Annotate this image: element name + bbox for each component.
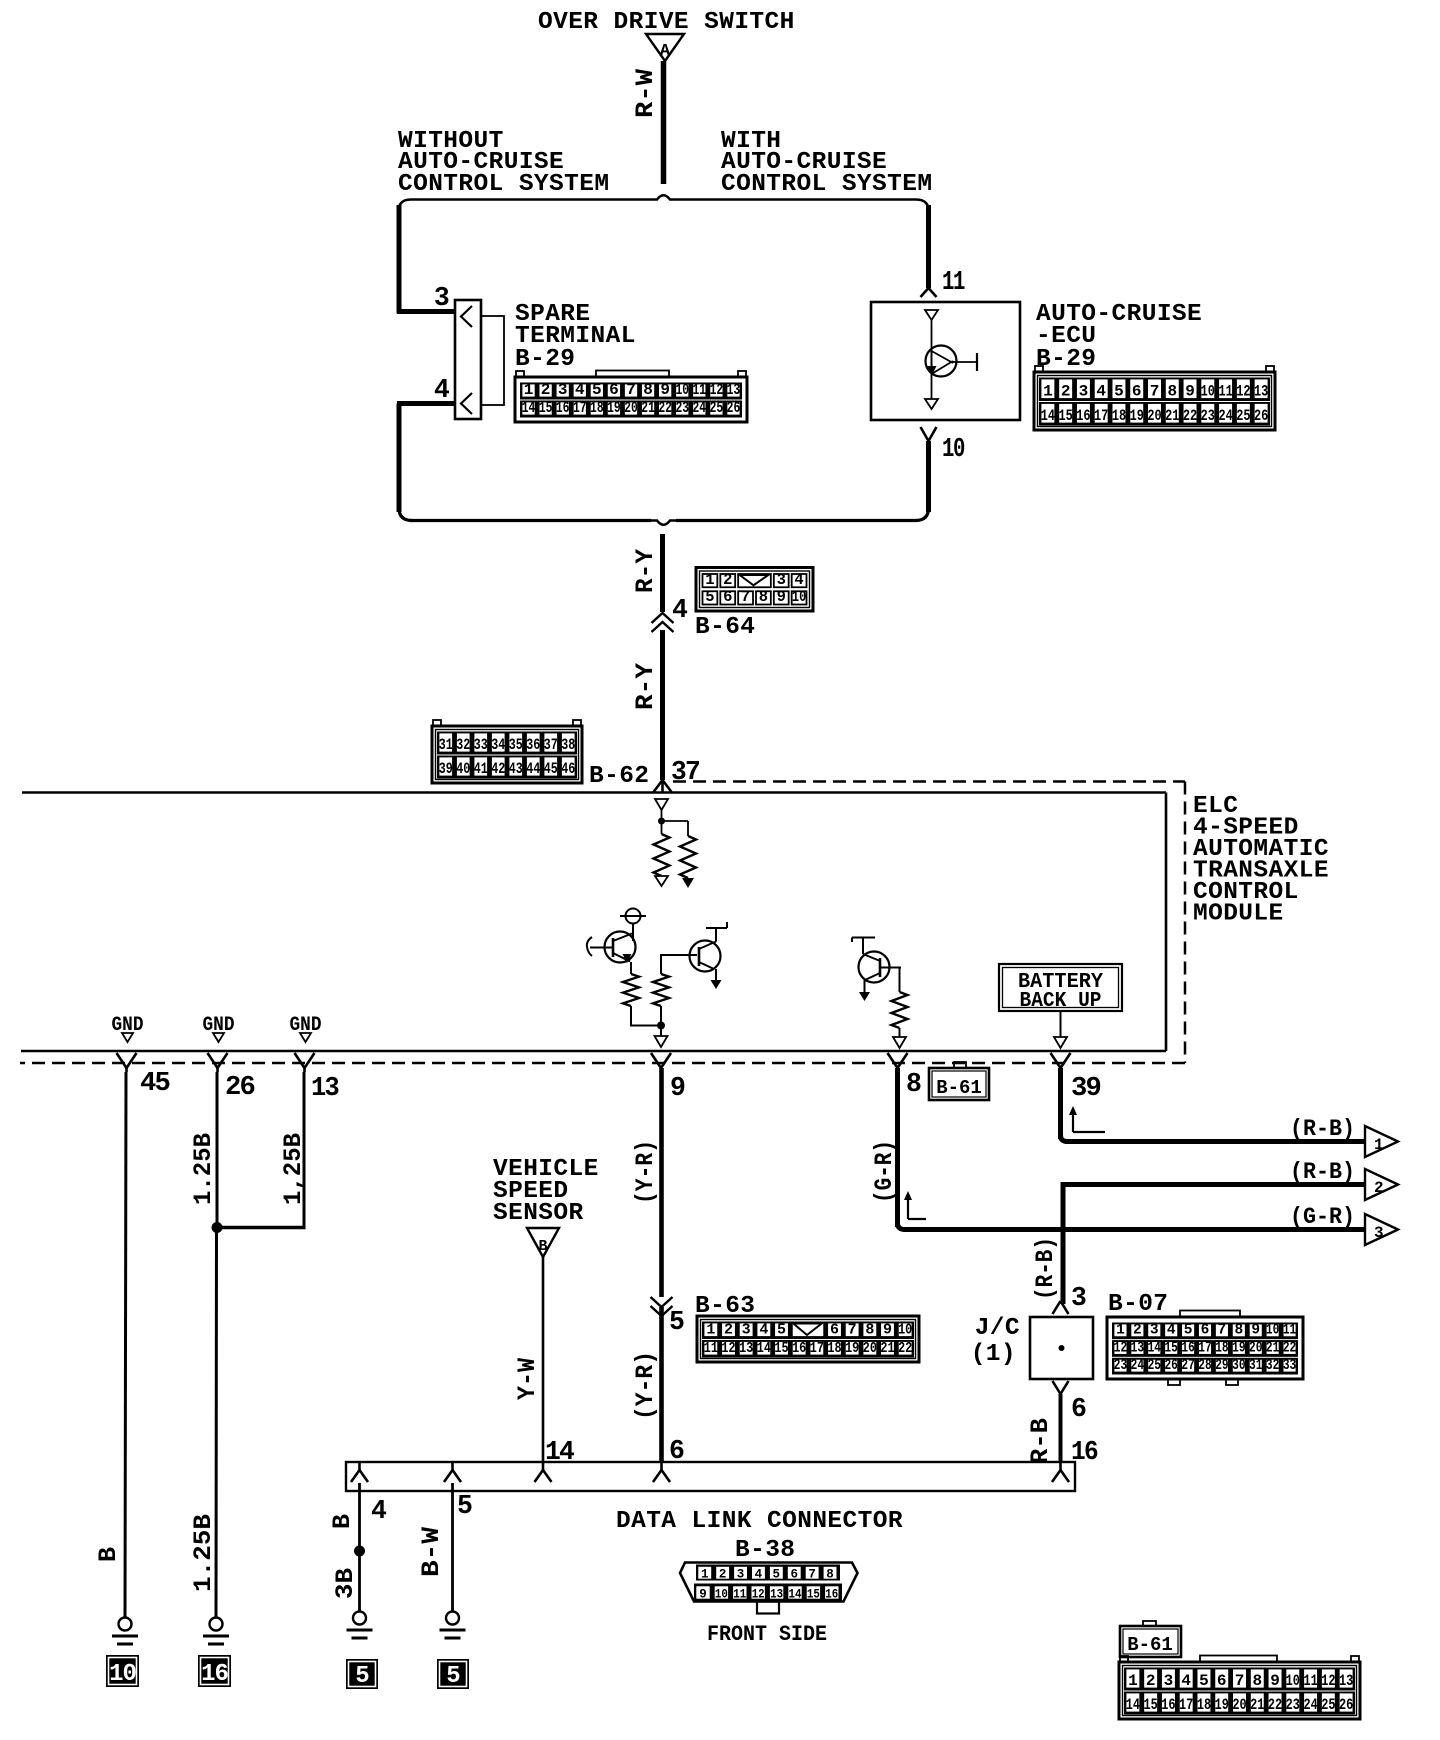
svg-text:11: 11: [704, 1340, 718, 1357]
svg-text:R-Y: R-Y: [631, 549, 660, 593]
inline connector B-63 pin 5 (chevrons): [651, 1297, 673, 1307]
svg-text:21: 21: [880, 1340, 894, 1357]
svg-text:(R-B): (R-B): [1290, 1116, 1355, 1143]
svg-text:2: 2: [1146, 1672, 1156, 1690]
svg-text:17: 17: [810, 1340, 824, 1357]
svg-text:43: 43: [509, 760, 523, 778]
svg-text:11: 11: [733, 1588, 746, 1602]
svg-text:12: 12: [752, 1588, 765, 1602]
battery back up box: [999, 964, 1122, 1011]
svg-text:18: 18: [1215, 1340, 1228, 1356]
svg-text:1: 1: [524, 381, 534, 399]
svg-text:9: 9: [699, 1588, 707, 1602]
svg-text:B-38: B-38: [735, 1537, 795, 1564]
svg-text:7: 7: [741, 588, 750, 606]
svg-text:1: 1: [701, 1568, 709, 1582]
resistor R2 (pin37 pull): [680, 836, 696, 878]
ELC module dashed border: [673, 780, 1185, 783]
svg-text:14: 14: [789, 1588, 802, 1602]
svg-text:10: 10: [675, 381, 689, 399]
svg-text:2: 2: [1374, 1179, 1384, 1197]
svg-text:3B: 3B: [331, 1568, 360, 1599]
svg-text:R-W: R-W: [631, 69, 660, 118]
svg-text:13: 13: [311, 1073, 339, 1103]
svg-text:39: 39: [439, 760, 453, 778]
svg-text:18: 18: [590, 399, 604, 417]
pin 39 internal triangle: [1060, 1011, 1062, 1037]
svg-text:2: 2: [1061, 383, 1071, 401]
arrow terminal 2: [1365, 1169, 1398, 1200]
svg-text:6: 6: [1201, 1323, 1210, 1339]
svg-text:31: 31: [1249, 1358, 1263, 1374]
svg-text:19: 19: [1232, 1340, 1245, 1356]
svg-text:8: 8: [1252, 1672, 1262, 1690]
svg-text:22: 22: [658, 399, 672, 417]
svg-text:46: 46: [561, 760, 575, 778]
svg-text:8: 8: [643, 381, 653, 399]
svg-text:38: 38: [561, 736, 575, 754]
svg-text:Y-W: Y-W: [513, 1358, 542, 1400]
svg-text:6: 6: [1132, 383, 1142, 401]
svg-text:6: 6: [1217, 1672, 1227, 1690]
svg-text:15: 15: [807, 1588, 820, 1602]
svg-text:B: B: [94, 1547, 123, 1562]
svg-text:10: 10: [792, 588, 806, 606]
svg-text:CONTROL SYSTEM: CONTROL SYSTEM: [398, 171, 609, 198]
svg-text:14: 14: [1148, 1340, 1162, 1356]
svg-text:16: 16: [1181, 1340, 1194, 1356]
svg-text:10: 10: [898, 1322, 912, 1339]
wire 1.25B pin 26 upper: [216, 1072, 219, 1227]
svg-text:10: 10: [1286, 1672, 1300, 1690]
svg-text:B-62: B-62: [589, 763, 649, 790]
wire B from DLC pin 4: [358, 1483, 361, 1612]
svg-text:1: 1: [1374, 1136, 1384, 1154]
connector B triangle (vehicle speed sensor): [527, 1228, 559, 1257]
connector B-62 pin table: [433, 720, 441, 727]
svg-text:22: 22: [1183, 407, 1197, 425]
resistor R1 (pin37 pull): [661, 821, 663, 834]
svg-text:1,25B: 1,25B: [279, 1133, 308, 1205]
svg-text:26: 26: [1164, 1358, 1177, 1374]
svg-text:(G-R): (G-R): [870, 1140, 899, 1203]
svg-text:30: 30: [1232, 1358, 1245, 1374]
svg-text:19: 19: [1215, 1696, 1229, 1714]
svg-text:12: 12: [710, 381, 724, 399]
svg-text:21: 21: [1266, 1340, 1280, 1356]
svg-text:10: 10: [715, 1588, 728, 1602]
svg-text:26: 26: [727, 399, 741, 417]
svg-text:23: 23: [1114, 1358, 1127, 1374]
svg-text:19: 19: [607, 399, 621, 417]
svg-text:13: 13: [1131, 1340, 1144, 1356]
svg-text:15: 15: [1164, 1340, 1177, 1356]
svg-text:26: 26: [1339, 1696, 1353, 1714]
svg-text:23: 23: [675, 399, 689, 417]
wire (G-R): [895, 1068, 900, 1227]
connector B-61 pin table: [1120, 1656, 1128, 1663]
svg-text:32: 32: [1266, 1358, 1279, 1374]
svg-text:4: 4: [434, 375, 450, 405]
svg-text:25: 25: [1148, 1358, 1161, 1374]
connector B-38 diagram: [680, 1563, 858, 1602]
svg-text:6: 6: [1071, 1394, 1086, 1424]
svg-text:4: 4: [575, 381, 585, 399]
svg-text:23: 23: [1286, 1696, 1300, 1714]
DLC pin 14 terminal: [542, 1462, 545, 1470]
svg-text:MODULE: MODULE: [1193, 901, 1284, 928]
svg-text:(R-B): (R-B): [1031, 1237, 1060, 1300]
pin 39 terminal: [1051, 1053, 1061, 1068]
svg-text:13: 13: [770, 1588, 783, 1602]
svg-text:13: 13: [727, 381, 741, 399]
svg-text:18: 18: [827, 1340, 841, 1357]
svg-text:24: 24: [1218, 407, 1233, 425]
svg-text:(R-B): (R-B): [1290, 1159, 1355, 1186]
wire 1.25B pin 26 lower: [215, 1227, 219, 1617]
svg-text:9: 9: [660, 381, 670, 399]
svg-text:23: 23: [1201, 407, 1215, 425]
svg-text:39: 39: [1071, 1073, 1101, 1103]
svg-text:44: 44: [526, 760, 540, 778]
svg-text:13: 13: [739, 1340, 753, 1357]
arrow terminal 3: [1365, 1214, 1398, 1245]
svg-text:6: 6: [790, 1568, 798, 1582]
svg-text:1.25B: 1.25B: [189, 1133, 218, 1205]
shield hook symbol at pin 39: [1072, 1112, 1074, 1132]
transistor Q1: [605, 932, 636, 963]
svg-text:36: 36: [526, 736, 540, 754]
svg-text:14: 14: [1041, 407, 1056, 425]
svg-text:5: 5: [669, 1307, 684, 1337]
DLC pin 6 terminal: [660, 1462, 663, 1470]
svg-text:4: 4: [1181, 1672, 1191, 1690]
svg-text:7: 7: [1150, 383, 1160, 401]
svg-text:9: 9: [883, 1322, 892, 1339]
svg-text:19: 19: [845, 1340, 859, 1357]
svg-text:20: 20: [1147, 407, 1161, 425]
svg-text:(1): (1): [971, 1341, 1016, 1368]
svg-text:OVER DRIVE SWITCH: OVER DRIVE SWITCH: [538, 9, 795, 36]
DLC pin 4 terminal: [358, 1462, 361, 1470]
svg-text:29: 29: [1215, 1358, 1228, 1374]
wire B pin 45: [125, 1072, 126, 1617]
wire R-Y lower: [660, 630, 665, 780]
svg-text:BACK UP: BACK UP: [1020, 990, 1102, 1013]
connector B-61 upper symbol: [954, 1062, 966, 1068]
wire from spare terminal pin 4: [397, 401, 456, 406]
svg-text:11: 11: [1218, 383, 1232, 401]
ground ref box 10: [106, 1655, 139, 1687]
svg-text:19: 19: [1130, 407, 1144, 425]
svg-text:10: 10: [942, 434, 965, 464]
svg-text:20: 20: [863, 1340, 877, 1357]
svg-text:7: 7: [848, 1322, 857, 1339]
svg-text:SENSOR: SENSOR: [493, 1200, 584, 1227]
arrow terminal 1: [1365, 1126, 1398, 1157]
wire from auto-cruise ECU pin 10: [926, 441, 931, 512]
svg-text:7: 7: [626, 381, 636, 399]
svg-text:21: 21: [641, 399, 655, 417]
svg-text:B: B: [538, 1238, 547, 1255]
svg-text:B-61: B-61: [1127, 1634, 1173, 1656]
svg-text:27: 27: [1181, 1358, 1194, 1374]
svg-text:18: 18: [1112, 407, 1126, 425]
svg-text:16: 16: [825, 1588, 838, 1602]
resistor R3: [653, 974, 669, 1006]
svg-text:B-07: B-07: [1108, 1291, 1168, 1318]
data link connector box: [346, 1462, 1075, 1491]
svg-text:24: 24: [693, 399, 707, 417]
svg-text:R-Y: R-Y: [631, 663, 660, 710]
svg-text:3: 3: [1374, 1224, 1384, 1242]
svg-text:25: 25: [1321, 1696, 1335, 1714]
svg-text:20: 20: [1232, 1696, 1246, 1714]
svg-text:3: 3: [777, 571, 786, 589]
node junction on wire 4: [354, 1546, 365, 1557]
svg-text:31: 31: [439, 736, 453, 754]
svg-text:8: 8: [759, 588, 768, 606]
svg-text:6: 6: [830, 1322, 839, 1339]
svg-text:3: 3: [737, 1568, 745, 1582]
ground ref box 5 (right): [437, 1659, 469, 1689]
svg-text:5: 5: [446, 1663, 460, 1690]
svg-text:13: 13: [1254, 383, 1268, 401]
connector B-07 pin table: [1180, 1311, 1240, 1319]
svg-text:40: 40: [456, 760, 470, 778]
svg-text:7: 7: [1235, 1672, 1245, 1690]
svg-text:32: 32: [456, 736, 470, 754]
wire to auto-cruise ECU pin 11: [926, 205, 931, 288]
svg-text:4: 4: [759, 1322, 768, 1339]
svg-text:21: 21: [1250, 1696, 1264, 1714]
svg-text:16: 16: [201, 1661, 228, 1688]
svg-text:A: A: [660, 42, 671, 61]
pin 11 terminal: [921, 288, 929, 297]
svg-text:4: 4: [672, 595, 688, 625]
svg-text:3: 3: [558, 381, 568, 399]
svg-text:1.25B: 1.25B: [189, 1514, 218, 1592]
svg-text:(G-R): (G-R): [1290, 1204, 1355, 1231]
svg-text:12: 12: [721, 1340, 735, 1357]
wire Y-W: [542, 1257, 545, 1462]
svg-text:4: 4: [1096, 383, 1106, 401]
connector A triangle (over drive switch): [646, 34, 684, 61]
svg-text:1: 1: [705, 571, 714, 589]
svg-text:9: 9: [777, 588, 786, 606]
pin 45 terminal: [117, 1053, 127, 1068]
svg-text:11: 11: [1283, 1323, 1297, 1339]
svg-text:17: 17: [1198, 1340, 1211, 1356]
wire R-W from switch: [661, 61, 667, 184]
svg-text:9: 9: [1251, 1323, 1260, 1339]
svg-text:6: 6: [609, 381, 619, 399]
pin 26 terminal: [208, 1053, 218, 1068]
transistor inside auto-cruise ECU: [925, 310, 938, 320]
svg-text:2: 2: [1133, 1323, 1142, 1339]
svg-text:8: 8: [1234, 1323, 1243, 1339]
svg-text:15: 15: [774, 1340, 788, 1357]
svg-text:B-W: B-W: [417, 1527, 446, 1577]
svg-text:3: 3: [434, 283, 449, 313]
svg-text:5: 5: [1114, 383, 1124, 401]
svg-text:4: 4: [755, 1568, 763, 1582]
wire R-Y upper: [660, 534, 665, 612]
wire (Y-R) upper: [659, 1068, 664, 1297]
svg-text:3: 3: [742, 1322, 751, 1339]
connector B-61 lower symbol: [1143, 1621, 1156, 1627]
svg-text:5: 5: [773, 1568, 781, 1582]
pin 9 terminal: [651, 1053, 661, 1068]
ground terminal B-38 4: [353, 1612, 366, 1625]
ground ref box 16: [198, 1655, 231, 1687]
svg-text:8: 8: [826, 1568, 834, 1582]
svg-text:2: 2: [723, 571, 732, 589]
svg-text:14: 14: [757, 1340, 771, 1357]
svg-text:5: 5: [592, 381, 602, 399]
connector B-64 pin table: [696, 568, 813, 612]
svg-text:9: 9: [670, 1073, 685, 1103]
svg-text:B-29: B-29: [515, 346, 575, 373]
svg-text:5: 5: [777, 1322, 786, 1339]
svg-text:10: 10: [109, 1661, 136, 1688]
svg-text:10: 10: [1201, 383, 1215, 401]
svg-text:11: 11: [693, 381, 707, 399]
svg-text:4: 4: [794, 571, 803, 589]
inline connector B-64 pin 4 (chevrons): [652, 613, 674, 623]
svg-text:12: 12: [1321, 1672, 1335, 1690]
svg-text:24: 24: [1303, 1696, 1318, 1714]
svg-text:21: 21: [1165, 407, 1179, 425]
shield hook symbol at (G-R): [907, 1197, 909, 1219]
pin 9 internal triangle: [660, 1026, 662, 1037]
svg-text:10: 10: [1266, 1323, 1279, 1339]
resistor R4 (Q3 collector): [899, 968, 901, 993]
svg-text:16: 16: [556, 399, 570, 417]
svg-text:14: 14: [1126, 1696, 1141, 1714]
wire to spare terminal pin 3: [397, 205, 402, 314]
internal power symbol (circle-bar): [626, 909, 641, 924]
ground ref box 5 (left): [346, 1659, 378, 1689]
svg-text:B-64: B-64: [695, 614, 755, 641]
node junction below pin 37: [661, 810, 663, 821]
pin 8 terminal: [888, 1053, 898, 1068]
junction connector J/C (1): [1053, 1301, 1061, 1314]
wire (R-B) to arrow 1: [1058, 1068, 1063, 1139]
svg-text:1: 1: [706, 1322, 715, 1339]
svg-text:B-61: B-61: [936, 1077, 982, 1099]
svg-text:3: 3: [1071, 1283, 1086, 1313]
svg-text:5: 5: [1199, 1672, 1209, 1690]
svg-text:16: 16: [1076, 407, 1090, 425]
svg-text:CONTROL SYSTEM: CONTROL SYSTEM: [721, 171, 932, 198]
svg-text:20: 20: [624, 399, 638, 417]
svg-text:FRONT SIDE: FRONT SIDE: [707, 1622, 827, 1647]
svg-text:4: 4: [371, 1496, 387, 1526]
svg-text:(Y-R): (Y-R): [631, 1140, 660, 1204]
svg-text:15: 15: [1144, 1696, 1158, 1714]
wire bottom merge bus: [410, 519, 651, 522]
connector B-29 pin table (spare terminal): [516, 371, 524, 378]
svg-text:22: 22: [1283, 1340, 1296, 1356]
svg-text:11: 11: [1303, 1672, 1317, 1690]
svg-text:15: 15: [1059, 407, 1073, 425]
pin 37 terminal: [654, 780, 663, 792]
svg-text:25: 25: [710, 399, 724, 417]
svg-text:15: 15: [539, 399, 553, 417]
svg-text:5: 5: [355, 1663, 369, 1690]
svg-text:8: 8: [865, 1322, 874, 1339]
svg-text:11: 11: [942, 267, 965, 297]
svg-text:37: 37: [544, 736, 558, 754]
svg-text:22: 22: [1268, 1696, 1282, 1714]
svg-text:2: 2: [719, 1568, 727, 1582]
svg-text:26: 26: [225, 1072, 255, 1102]
svg-text:1: 1: [1043, 383, 1053, 401]
svg-text:17: 17: [1179, 1696, 1193, 1714]
svg-text:7: 7: [808, 1568, 816, 1582]
auto-cruise ECU box: [871, 302, 1020, 420]
svg-text:45: 45: [140, 1068, 170, 1098]
transistor Q2: [690, 941, 721, 972]
svg-text:5: 5: [457, 1491, 472, 1521]
svg-text:7: 7: [1218, 1323, 1227, 1339]
svg-text:5: 5: [705, 588, 714, 606]
svg-text:12: 12: [1114, 1340, 1127, 1356]
svg-text:3: 3: [1150, 1323, 1159, 1339]
svg-text:42: 42: [491, 760, 505, 778]
pin 13 terminal: [295, 1053, 305, 1068]
ground terminal 16: [210, 1618, 223, 1631]
resistor Ra (Q1 emitter): [630, 962, 632, 974]
svg-text:(Y-R): (Y-R): [631, 1351, 660, 1420]
wire (Y-R) lower: [659, 1307, 664, 1462]
svg-text:34: 34: [491, 736, 505, 754]
svg-text:14: 14: [522, 399, 536, 417]
svg-text:2: 2: [724, 1322, 733, 1339]
svg-text:35: 35: [509, 736, 523, 754]
DLC pin 16 terminal: [1059, 1462, 1062, 1470]
node junction to pin 9: [657, 1022, 665, 1030]
spare terminal connector symbol: [455, 300, 481, 419]
svg-text:18: 18: [1197, 1696, 1211, 1714]
svg-text:33: 33: [474, 736, 488, 754]
wire B-W from DLC pin 5: [451, 1483, 454, 1612]
pin 37 internal input triangle: [655, 799, 668, 810]
connector B-63 pin table: [697, 1316, 919, 1362]
svg-text:41: 41: [474, 760, 488, 778]
ELC module solid border: [22, 791, 1166, 794]
wire top split brace: [399, 195, 929, 214]
wire R-B to DLC pin 16: [1059, 1394, 1063, 1462]
svg-text:24: 24: [1131, 1358, 1145, 1374]
svg-text:33: 33: [1283, 1358, 1296, 1374]
ground terminal B-38 5: [446, 1612, 459, 1625]
svg-text:17: 17: [1094, 407, 1108, 425]
svg-text:26: 26: [1254, 407, 1268, 425]
pin 8 internal triangle: [899, 1028, 901, 1037]
wire 1,25B pin 13: [303, 1072, 306, 1226]
svg-text:8: 8: [906, 1069, 921, 1099]
svg-text:16: 16: [792, 1340, 806, 1357]
svg-text:1: 1: [1128, 1672, 1138, 1690]
DLC pin 5 terminal: [451, 1462, 454, 1470]
svg-text:R-B: R-B: [1026, 1418, 1055, 1464]
pin 10 terminal: [921, 427, 929, 441]
svg-text:5: 5: [1184, 1323, 1193, 1339]
svg-text:3: 3: [1079, 383, 1089, 401]
ground terminal 45: [119, 1618, 132, 1631]
